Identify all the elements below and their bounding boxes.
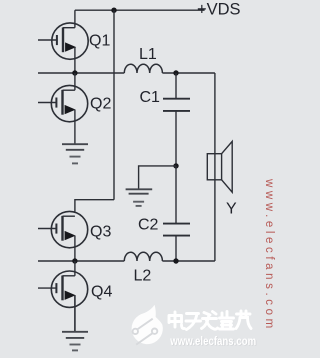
inductor L1	[124, 64, 162, 73]
ground mid	[126, 189, 153, 206]
svg-text:Q1: Q1	[89, 33, 110, 50]
wire vertical from top rail down to Q3 drain level	[113, 10, 115, 200]
ground under Q2	[62, 144, 88, 163]
svg-text:Y: Y	[226, 201, 237, 218]
svg-text:C2: C2	[138, 217, 159, 234]
svg-text:+VDS: +VDS	[197, 1, 241, 19]
transistor Q2	[38, 85, 88, 143]
wire L1 to node	[162, 72, 215, 74]
svg-text:Q4: Q4	[91, 284, 112, 301]
node L1/C1/speaker junction	[173, 70, 178, 75]
wire L2 to speaker	[162, 260, 215, 262]
node B junction	[72, 258, 77, 263]
node A junction	[72, 70, 77, 75]
wire Q3 drain horizontal	[75, 200, 114, 212]
speaker Y	[207, 141, 232, 192]
wire bus node B	[38, 260, 124, 262]
wire top rail +VDS	[75, 9, 205, 11]
wire Q4 drain lead	[74, 261, 76, 276]
wire speaker positive lead	[214, 73, 216, 261]
transistor Q3	[38, 211, 88, 261]
svg-text:L2: L2	[134, 268, 152, 285]
wire Q2 drain lead	[74, 73, 76, 90]
watermark logo teardrop	[132, 305, 163, 345]
svg-text:C1: C1	[140, 89, 161, 106]
wire bus node A	[38, 72, 124, 74]
transistor Q4	[38, 271, 88, 332]
svg-text:www.elecfans.com: www.elecfans.com	[169, 335, 256, 348]
ground under Q4	[62, 332, 88, 351]
watermark logo chinese 电子发烧友	[169, 311, 251, 330]
svg-text:Q3: Q3	[90, 224, 111, 241]
capacitor C2	[163, 166, 190, 261]
wire Q1 drain lead	[74, 10, 76, 28]
node L2/C2/speaker junction	[173, 258, 178, 263]
wire to mid ground	[139, 166, 176, 189]
transistor Q1	[38, 23, 88, 73]
node top rail junction	[111, 8, 116, 13]
svg-text:www.elecfans.com: www.elecfans.com	[263, 178, 275, 332]
svg-text:L1: L1	[139, 46, 157, 63]
capacitor C1	[163, 73, 190, 166]
inductor L2	[124, 252, 162, 261]
node C1/C2/ground junction	[173, 163, 178, 168]
svg-text:Q2: Q2	[90, 96, 111, 113]
